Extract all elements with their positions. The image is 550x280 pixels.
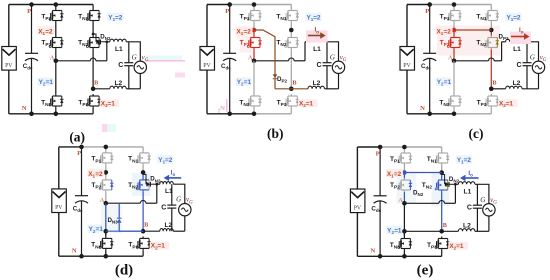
- wire N rail left segment (fig e): [357, 255, 404, 257]
- junction dot P-Cdc (fig a): [29, 2, 34, 7]
- wire node A horizontal (fig d): [106, 202, 141, 204]
- node A junction dot (fig d): [104, 201, 109, 206]
- transistor TP1 (fig a): [49, 9, 63, 23]
- wire junction vertical to L1 node (fig c): [501, 42, 503, 61]
- junction dot N-leftleg (fig e): [402, 254, 407, 259]
- wire TP3 to N rail corner (fig c): [490, 108, 492, 114]
- transistor TN1 (fig b): [285, 9, 299, 23]
- svg-text:N: N: [420, 105, 425, 112]
- junction node between TP1 and TP2 (fig e): [402, 170, 407, 175]
- svg-text:(b): (b): [267, 126, 284, 141]
- junction dot left leg at B level (fig d): [104, 229, 109, 234]
- wire from TN1-TN2 junction to freewheel diode (fig d): [143, 174, 146, 184]
- jpeg ghost artifact cyan tick below fig a caption: [107, 124, 116, 132]
- transistor TN3 (fig a): [49, 94, 63, 108]
- transistor TN2 (fig e): [435, 178, 449, 192]
- capacitor C (fig d): [167, 205, 176, 208]
- svg-text:C: C: [516, 62, 521, 69]
- svg-text:=2: =2: [244, 29, 252, 36]
- label Y2=1 halo (fig b): [236, 77, 252, 85]
- junction dot P-Cdc (fig d): [79, 145, 84, 150]
- wire Cdc branch upper (fig c): [429, 5, 431, 54]
- junction dot N-Cdc (fig e): [378, 254, 383, 259]
- wire A to TN3 (fig d): [105, 203, 107, 236]
- wire B extension (fig d): [119, 230, 143, 232]
- svg-text:L1: L1: [513, 46, 521, 53]
- wire C branch top (fig a): [128, 42, 130, 63]
- transistor TN3 (fig e): [398, 237, 412, 251]
- svg-text:=2: =2: [45, 29, 53, 36]
- svg-text:P: P: [27, 8, 31, 15]
- transistor TP3 (fig c): [485, 94, 499, 108]
- label X1=2 halo (fig c): [436, 26, 453, 34]
- wire junction vertical to L1 node (fig b): [304, 42, 306, 61]
- wire Jleft-TP2 segment (fig b): [253, 30, 255, 36]
- wire left leg B-level to TN3 (fig e): [403, 231, 405, 236]
- wire A horizontal continued (fig d): [146, 202, 157, 204]
- wire right leg top corner (fig d): [142, 147, 144, 151]
- wire TN3 to N rail (fig d): [105, 250, 107, 256]
- label Y1=2 halo (fig e): [456, 155, 472, 163]
- svg-text:A: A: [248, 55, 253, 62]
- wire Cdc branch upper (fig e): [379, 147, 381, 196]
- wire right leg top corner (fig c): [490, 5, 492, 9]
- wire TP3 to N rail corner (fig b): [290, 108, 292, 114]
- wire TP1-TP2 segment (fig e): [403, 165, 405, 173]
- svg-text:P: P: [425, 8, 429, 15]
- wire node A horizontal (fig c): [454, 60, 489, 62]
- transistor TN2 (fig b): [285, 36, 299, 50]
- wire TP3 to N rail corner (fig e): [441, 251, 443, 257]
- wire L1 to source top (fig e): [475, 184, 489, 203]
- wire TN3 to N rail (fig c): [453, 108, 455, 114]
- svg-text:=1: =1: [46, 79, 54, 86]
- wire L1 node connector (fig a): [107, 41, 110, 43]
- junction dot N-Cdc (fig c): [427, 112, 432, 117]
- wire PV positive lead (fig e): [356, 147, 358, 189]
- wire freewheel mid branch (fig d): [118, 203, 120, 218]
- current arrow Io (fig c): [511, 33, 530, 39]
- svg-text:=1: =1: [96, 226, 104, 233]
- label X2=1 halo (fig a): [100, 99, 120, 107]
- wire L1 node connector (fig e): [455, 183, 458, 185]
- wire P rail right segment (fig c): [430, 4, 492, 6]
- wire L2 to source bottom (fig a): [126, 88, 140, 90]
- svg-text:=2: =2: [313, 15, 321, 22]
- wire TP2-A segment (fig b): [253, 50, 255, 61]
- wire N rail right segment (fig a): [56, 113, 93, 115]
- svg-text:L2: L2: [513, 80, 521, 87]
- AC grid source vG (fig c): [532, 61, 544, 73]
- transistor TP1 (fig c): [447, 9, 461, 23]
- wire L1 node connector (fig d): [157, 183, 160, 185]
- diode DN2 (fig e): [445, 182, 449, 187]
- arrow highlight tint (fig c): [510, 32, 531, 45]
- wire N rail right segment (fig b): [254, 113, 291, 115]
- transistor TP1 (fig d): [99, 151, 113, 165]
- label highlight tint (fig e): [396, 173, 416, 204]
- transistor TN1 (fig a): [87, 9, 101, 23]
- wire from TN1-TN2 junction to freewheel diode (fig a): [93, 34, 96, 42]
- wire PV negative lead (fig d): [58, 213, 60, 257]
- node B junction dot (fig a): [91, 87, 96, 92]
- wire L2 to source bottom (fig b): [325, 88, 339, 90]
- transistor TN3 (fig c): [447, 94, 461, 108]
- label X2=1 halo (fig e): [448, 242, 468, 250]
- wire A horizontal continued (fig e): [445, 202, 456, 204]
- node B junction dot (fig c): [489, 87, 494, 92]
- junction dot N-leftleg (fig a): [54, 112, 59, 117]
- wire mid branch lower (fig b): [274, 79, 276, 89]
- wire J1-TN2 segment (fig a): [92, 30, 94, 36]
- svg-text:L1: L1: [464, 188, 472, 195]
- inductor L1 (fig c): [506, 39, 522, 42]
- current arrow Io (fig b): [308, 32, 326, 38]
- capacitor C (fig a): [124, 63, 133, 66]
- transistor TN3 (fig d): [99, 236, 113, 250]
- node A junction dot (fig b): [252, 59, 257, 64]
- junction dot N-leftleg (fig c): [452, 112, 457, 117]
- label Y1=2 halo (fig a): [107, 13, 123, 21]
- wire A horizontal continued (fig c): [494, 60, 502, 62]
- AC grid source vG (fig a): [134, 61, 146, 73]
- junction node between TN1 and TN2 (fig e): [439, 170, 444, 175]
- transistor TP2 (fig e): [398, 178, 412, 192]
- wire TN3 to N rail (fig b): [253, 108, 255, 114]
- wire A to TN3 (fig a): [55, 61, 57, 94]
- wire N rail left segment (fig b): [207, 113, 254, 115]
- wire N rail left segment (fig c): [407, 113, 454, 115]
- svg-text:(a): (a): [69, 130, 85, 145]
- svg-text:=1: =1: [394, 227, 402, 234]
- label X2=1 halo (fig c): [498, 99, 518, 107]
- wire TP2-A segment (fig e): [403, 192, 405, 203]
- wire left leg top (fig d): [105, 147, 107, 151]
- PV panel source (fig e): [350, 189, 365, 213]
- junction dot N-Cdc (fig a): [29, 112, 34, 117]
- diode DN3 (fig d): [117, 218, 122, 223]
- wire Cdc branch lower (fig a): [31, 58, 33, 113]
- wire L1 to source top (fig c): [522, 42, 539, 61]
- wire source bottom (fig a): [139, 74, 141, 89]
- capacitor Cdc (fig a): [25, 53, 38, 60]
- inductor L2 (fig d): [160, 229, 174, 232]
- junction node between TP1 and TP2 (fig b): [252, 28, 257, 33]
- wire N rail right segment (fig c): [454, 113, 491, 115]
- wire source bottom (fig b): [338, 74, 340, 89]
- wire A to TN3 (fig e): [403, 203, 405, 236]
- label Y2=1 halo (fig a): [38, 77, 54, 85]
- wire TN2 to hop (fig d): [142, 192, 144, 231]
- junction dot left leg at B level (fig e): [402, 229, 407, 234]
- svg-text:C: C: [316, 62, 321, 69]
- transistor TP2 (fig a): [49, 36, 63, 50]
- wire C branch top (fig d): [171, 184, 173, 205]
- wire PV positive lead (fig d): [58, 147, 60, 189]
- wire C branch top (fig e): [476, 184, 478, 205]
- svg-text:PV: PV: [5, 63, 13, 69]
- capacitor C (fig b): [323, 63, 332, 66]
- label highlight tint (fig b): [236, 27, 254, 40]
- wire TN2 to hop (fig b): [290, 50, 292, 89]
- wire C branch bottom (fig a): [128, 66, 130, 89]
- node B junction dot (fig e): [439, 229, 444, 234]
- wire PV negative lead (fig c): [406, 70, 408, 114]
- label highlight tint (fig d): [132, 173, 151, 196]
- wire P rail left segment (fig b): [207, 4, 230, 6]
- wire P rail right segment (fig e): [380, 146, 442, 148]
- svg-text:A: A: [398, 197, 403, 204]
- wire jumper between legs (fig c): [454, 29, 491, 31]
- label Y1=2 halo (fig d): [157, 155, 173, 163]
- AC grid source vG (fig d): [179, 204, 191, 216]
- svg-text:B: B: [492, 79, 496, 86]
- wire PV negative lead (fig e): [356, 213, 358, 257]
- svg-text:=2: =2: [444, 29, 452, 36]
- wire Cdc branch lower (fig e): [379, 201, 381, 256]
- wire Cdc branch upper (fig d): [81, 147, 83, 196]
- svg-text:=2: =2: [464, 157, 472, 164]
- svg-text:C: C: [161, 204, 166, 211]
- wire B extension (fig b): [275, 88, 291, 90]
- wire C branch bottom (fig b): [326, 66, 328, 89]
- wire PV negative lead (fig b): [206, 70, 208, 114]
- wire P rail right segment (fig d): [82, 146, 144, 148]
- junction node between TP1 and TP2 (fig c): [452, 28, 457, 33]
- wire B to L2 (fig a): [93, 88, 110, 90]
- label X1=2 halo (fig b): [236, 26, 253, 34]
- svg-text:=2: =2: [394, 171, 402, 178]
- svg-text:G: G: [176, 196, 181, 204]
- wire right leg top corner (fig b): [290, 5, 292, 9]
- junction dot L1 node (fig d): [155, 183, 158, 186]
- jpeg ghost artifact pink tick below fig a caption: [102, 124, 107, 132]
- wire right leg top corner (fig a): [92, 5, 94, 9]
- junction node between TN1 and TN2 (fig c): [489, 28, 494, 33]
- wire TN1-TN2 segment (fig e): [441, 165, 443, 173]
- wire PV positive lead (fig b): [206, 5, 208, 47]
- wire left leg top (fig b): [253, 5, 255, 9]
- transistor TP3 (fig a): [87, 94, 101, 108]
- jpeg ghost artifact magenta tick fig b bottom 2: [218, 108, 220, 114]
- svg-text:=1: =1: [108, 100, 116, 107]
- transistor TP2 (fig b): [247, 36, 261, 50]
- wire TN2 to hop (fig e): [441, 192, 443, 231]
- wire Jleft-TP2 segment (fig a): [55, 30, 57, 36]
- label highlight tint (fig e): [431, 172, 449, 206]
- jpeg ghost artifact pink mark right of fig a lower: [175, 73, 185, 78]
- wire B to L2 (fig e): [442, 230, 459, 232]
- svg-text:=2: =2: [95, 171, 103, 178]
- capacitor Cdc (fig c): [423, 53, 436, 60]
- wire Cdc branch lower (fig c): [429, 58, 431, 113]
- junction dot N-Cdc (fig b): [227, 112, 232, 117]
- diode DN2 (fig a): [96, 40, 100, 45]
- wire L1 to source top (fig a): [126, 42, 140, 61]
- capacitor Cdc (fig b): [223, 53, 236, 60]
- svg-text:=1: =1: [506, 100, 514, 107]
- wire TN3 to N rail (fig e): [403, 251, 405, 257]
- jpeg ghost artifact magenta tick fig b bottom: [226, 99, 228, 112]
- wire junction vertical to L1 node (fig e): [454, 184, 456, 203]
- wire TP1-TP2 segment (fig c): [453, 23, 455, 31]
- wire source bottom (fig d): [184, 216, 186, 231]
- transistor TN1 (fig c): [485, 9, 499, 23]
- svg-text:G: G: [330, 53, 335, 61]
- wire TP2-A segment (fig c): [453, 50, 455, 61]
- wire C branch bottom (fig c): [526, 66, 528, 89]
- transistor TP2 (fig c): [447, 36, 461, 50]
- wire Cdc branch upper (fig a): [31, 5, 33, 54]
- transistor TN1 (fig d): [137, 151, 151, 165]
- label Y2=1 halo (fig e): [386, 226, 402, 234]
- junction node between TP1 and TP2 (fig d): [104, 170, 109, 175]
- wire P rail right segment (fig b): [230, 4, 292, 6]
- transistor TP3 (fig d): [137, 236, 151, 250]
- wire diode to L1 node (fig a): [101, 41, 107, 43]
- diode DP2 (fig b): [273, 74, 278, 78]
- svg-text:=2: =2: [513, 15, 521, 22]
- wire PV negative lead (fig a): [8, 70, 10, 114]
- junction node between TN1 and TN2 (fig d): [141, 170, 146, 175]
- svg-text:L1: L1: [313, 46, 321, 53]
- wire A to TN3 (fig c): [453, 61, 455, 94]
- svg-text:=2: =2: [115, 15, 123, 22]
- wire B to L2 (fig b): [291, 88, 308, 90]
- wire P rail left segment (fig d): [59, 146, 82, 148]
- wire L2 to source bottom (fig e): [475, 230, 489, 232]
- svg-text:B: B: [144, 222, 148, 229]
- wire junction vertical to L1 node (fig d): [156, 184, 158, 203]
- wire Jleft-TP2 segment (fig e): [403, 173, 405, 179]
- wire P rail left segment (fig a): [9, 4, 93, 6]
- junction dot P-leftleg (fig c): [452, 2, 457, 7]
- wire L1 to source top (fig d): [173, 184, 185, 203]
- svg-text:A: A: [50, 55, 55, 62]
- wire jumper between legs (fig e): [404, 172, 441, 174]
- wire Cdc branch lower (fig d): [81, 201, 83, 256]
- junction dot P-Cdc (fig c): [427, 2, 432, 7]
- label Y1=2 halo (fig c): [506, 13, 522, 21]
- wire B-level extension to left leg (fig d): [106, 230, 143, 232]
- transistor TN2 (fig a): [87, 36, 101, 50]
- wire Jleft-TP2 segment (fig d): [105, 172, 107, 178]
- wire source bottom (fig c): [538, 74, 540, 89]
- wire mid branch lower (fig d): [118, 223, 120, 231]
- wire TP3 to N rail corner (fig d): [142, 250, 144, 256]
- svg-text:N: N: [22, 105, 27, 112]
- label X1=2 halo (fig a): [37, 26, 54, 34]
- wire L1 node connector (fig b): [305, 41, 308, 43]
- svg-text:=1: =1: [456, 243, 464, 250]
- wire left leg top (fig c): [453, 5, 455, 9]
- wire TP2-A segment (fig d): [105, 192, 107, 203]
- wire A to TN3 (fig b): [253, 61, 255, 94]
- label X2=1 halo (fig b): [298, 99, 318, 107]
- svg-text:PV: PV: [354, 205, 362, 211]
- wire TN2 to hop (fig c): [490, 50, 492, 89]
- svg-text:G: G: [530, 53, 535, 61]
- wire C branch top (fig c): [526, 42, 528, 63]
- label Y2=1 halo (fig d): [88, 225, 104, 233]
- wire P rail left segment (fig e): [357, 146, 380, 148]
- wire crossing hop over right leg (fig a): [90, 58, 96, 61]
- wire left leg top (fig e): [403, 147, 405, 151]
- wire N rail right segment (fig e): [404, 255, 441, 257]
- arrow highlight tint (fig b): [306, 30, 328, 42]
- svg-text:(e): (e): [417, 263, 434, 279]
- inductor L2 (fig e): [458, 229, 474, 232]
- wire freewheel mid branch (fig b): [254, 30, 275, 74]
- inductor L2 (fig b): [308, 86, 324, 89]
- wire left leg top (fig a): [55, 5, 57, 9]
- wire TN1-TN2 segment (fig c): [490, 23, 492, 31]
- junction dot at diode branch tap (fig a): [92, 33, 95, 36]
- wire N rail left segment (fig d): [59, 255, 106, 257]
- wire Cdc branch upper (fig b): [229, 5, 231, 54]
- svg-text:PV: PV: [203, 63, 211, 69]
- label Y2=1 halo (fig c): [436, 77, 452, 85]
- diode DN2 (fig d): [146, 182, 150, 187]
- wire crossing hop over right leg (fig b): [289, 58, 295, 61]
- wire node A horizontal (fig b): [254, 60, 289, 62]
- svg-text:B: B: [94, 79, 98, 86]
- svg-text:C: C: [467, 205, 472, 212]
- wire crossing hop over right leg (fig e): [439, 201, 445, 204]
- transistor TN2 (fig c): [485, 36, 499, 50]
- transistor TN1 (fig e): [435, 151, 449, 165]
- wire N rail left segment (fig a): [9, 113, 56, 115]
- svg-text:C: C: [118, 62, 123, 69]
- AC grid source vG (fig b): [332, 61, 344, 73]
- label X1=2 halo (fig e): [386, 169, 403, 177]
- label X2=1 halo (fig d): [150, 242, 170, 250]
- inductor L2 (fig c): [506, 86, 522, 89]
- svg-text:=1: =1: [306, 100, 314, 107]
- capacitor C (fig c): [523, 63, 532, 66]
- svg-text:L2: L2: [164, 222, 172, 229]
- wire from TN1-TN2 junction to freewheel diode (fig e): [442, 175, 445, 185]
- AC grid source vG (fig e): [483, 204, 495, 216]
- capacitor C (fig e): [473, 205, 482, 208]
- wire TN1-TN2 segment (fig a): [92, 23, 94, 31]
- current arrow Io (fig d): [164, 175, 182, 181]
- wire junction vertical to L1 node (fig a): [106, 42, 108, 61]
- capacitor Cdc (fig e): [374, 196, 387, 203]
- wire TP2-A segment (fig a): [55, 50, 57, 61]
- wire node A horizontal (fig e): [404, 202, 439, 204]
- wire Cdc branch lower (fig b): [229, 58, 231, 113]
- node A junction dot (fig c): [452, 59, 457, 64]
- transistor TP1 (fig e): [398, 151, 412, 165]
- node B junction dot (fig b): [289, 87, 294, 92]
- wire B to L2 (fig d): [143, 230, 160, 232]
- wire P rail right segment (fig a): [92, 4, 94, 6]
- PV panel source (fig b): [200, 47, 215, 71]
- wire J1-TN2 segment (fig b): [290, 30, 292, 36]
- svg-text:N: N: [371, 248, 376, 255]
- svg-text:L2: L2: [114, 80, 122, 87]
- wire TP3 to N rail corner (fig a): [92, 108, 94, 114]
- transistor TP3 (fig e): [435, 237, 449, 251]
- wire L1 node connector (fig c): [502, 41, 506, 43]
- capacitor Cdc (fig d): [75, 196, 88, 203]
- svg-text:N: N: [72, 248, 77, 255]
- inductor L1 (fig e): [458, 182, 474, 185]
- wire TN2 to hop (fig a): [92, 50, 94, 89]
- svg-text:P: P: [376, 150, 380, 157]
- wire A horizontal continued (fig a): [96, 60, 107, 62]
